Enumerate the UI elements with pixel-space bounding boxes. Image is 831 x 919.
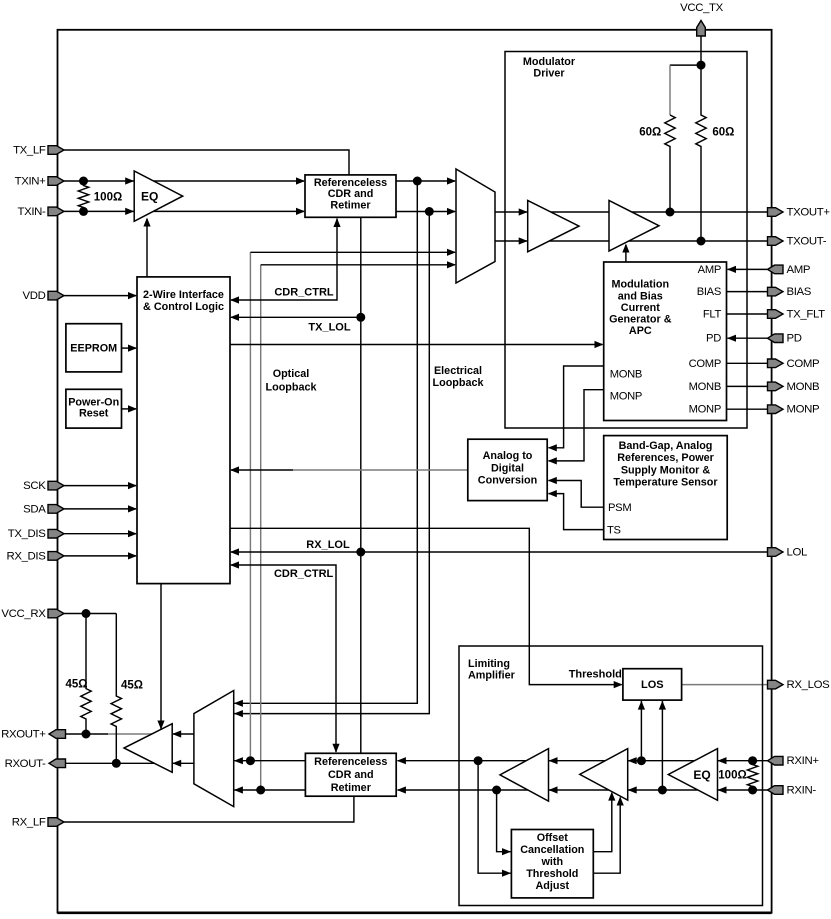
wire RX CDR output lower to RX mux — [235, 789, 306, 791]
svg-text:TX_DIS: TX_DIS — [8, 528, 47, 540]
arrowhead TXIN+ into TX CDR — [296, 177, 305, 184]
svg-text:COMP: COMP — [787, 358, 820, 370]
node RXIN+ termination — [748, 756, 757, 765]
arrowhead LOS tap lower — [659, 701, 666, 710]
svg-text:Loopback: Loopback — [433, 377, 485, 389]
op-amp RX output buffer — [124, 724, 172, 773]
wire RX upper signal from RXIN+ through limiting amp to RX CDR — [398, 760, 768, 762]
arrowhead offset output into amp right — [617, 797, 624, 806]
wire optical loopback upper into TX mux — [250, 251, 455, 253]
node optical loopback tap lower — [256, 786, 265, 795]
wire ADC result gray part — [293, 469, 468, 471]
svg-text:45Ω: 45Ω — [65, 678, 87, 690]
arrowhead TXIN+ into EQ — [125, 177, 134, 184]
arrowhead POR into 2-wire box — [128, 405, 137, 412]
wire AMP pin into modulation block — [728, 268, 768, 270]
block power-on reset — [66, 389, 122, 428]
pin TX_DIS — [48, 529, 64, 538]
arrowhead elec loopback lower into RX mux — [234, 710, 243, 717]
wire TX mux output lower to TXOUT- pin — [495, 240, 768, 242]
svg-text:PSM: PSM — [608, 502, 631, 514]
wire RX_LF from pin to RX CDR bottom — [64, 796, 354, 822]
wire optical loopback upper vertical — [249, 252, 251, 760]
pin VCC_TX — [697, 21, 706, 37]
arrowhead RX_DIS into 2-wire box — [128, 552, 137, 559]
svg-text:RXOUT-: RXOUT- — [5, 758, 46, 770]
wire optical loopback lower vertical — [260, 265, 262, 790]
RX loopback mux — [194, 691, 234, 807]
svg-text:BIAS: BIAS — [787, 286, 812, 298]
arrowhead lower into RX CDR — [397, 786, 406, 793]
arrowhead lower into limiting stage1 — [549, 786, 558, 793]
arrowhead offset input upper — [502, 870, 511, 877]
node offset tap upper — [474, 756, 483, 765]
wire offset cancellation lower output to amp — [593, 798, 620, 874]
svg-text:VCC_RX: VCC_RX — [1, 608, 46, 620]
svg-text:TS: TS — [607, 525, 621, 537]
wire PD pin into modulation block — [728, 337, 768, 339]
svg-text:60Ω: 60Ω — [639, 127, 661, 139]
arrowhead upper into limiting stage1 — [549, 757, 558, 764]
wire EEPROM to 2-wire box — [122, 347, 137, 349]
node RXOUT- 45ohm junction — [112, 759, 121, 768]
pin TX_FLT — [768, 310, 784, 319]
arrowhead MONB into ADC — [548, 444, 557, 451]
arrowhead PSM into ADC — [548, 477, 557, 484]
svg-text:EEPROM: EEPROM — [70, 342, 117, 354]
block band-gap analog references — [604, 436, 728, 540]
node elec loopback tap upper — [413, 177, 422, 186]
svg-text:RX_LOS: RX_LOS — [787, 679, 831, 691]
op-amp RX EQ — [668, 749, 717, 801]
wire SCK to 2-wire box — [64, 485, 136, 487]
wire MONP output to pin — [727, 408, 768, 410]
svg-text:LOS: LOS — [641, 679, 664, 691]
wire VDD to 2-wire box — [64, 295, 136, 297]
pin VDD — [48, 291, 64, 300]
wire TXIN+ input to EQ and CDR — [64, 180, 304, 182]
arrowhead RX CDR lower out into RX mux — [234, 786, 243, 793]
pin PD — [768, 334, 784, 343]
svg-text:Threshold: Threshold — [569, 668, 622, 680]
arrowhead CDR out lower into mux — [447, 208, 456, 215]
node optical loopback tap upper — [246, 756, 255, 765]
pin TXOUT+ — [768, 208, 784, 217]
arrowhead 2-wire to RX buffer — [157, 721, 164, 730]
op-amp TX pre-driver buffer — [528, 201, 579, 252]
arrowhead upper into limiting stage2 — [628, 757, 637, 764]
svg-text:RXIN+: RXIN+ — [787, 755, 820, 767]
node LOL junction — [356, 548, 365, 557]
svg-text:BIAS: BIAS — [697, 286, 721, 298]
svg-text:AMP: AMP — [787, 264, 811, 276]
wire LOS tap from lower RX line — [661, 701, 663, 790]
svg-text:Amplifier: Amplifier — [468, 670, 516, 682]
wire SDA to 2-wire box — [64, 508, 136, 510]
svg-text:MONB: MONB — [689, 381, 721, 393]
arrowhead EQ control — [143, 218, 150, 227]
wire electrical loopback lower tap down to RX mux — [235, 212, 430, 714]
node RXIN- termination — [748, 786, 757, 795]
svg-text:PD: PD — [787, 333, 802, 345]
svg-text:TXIN-: TXIN- — [18, 206, 47, 218]
arrowhead SCK into 2-wire box — [128, 482, 137, 489]
svg-text:100Ω: 100Ω — [94, 191, 122, 203]
resistor 60 ohm left pull-up — [665, 115, 675, 212]
pin RX_DIS — [48, 552, 64, 561]
wire CDR_CTRL from 2-wire box down to RX CDR — [231, 565, 336, 752]
node LOS tap upper — [637, 756, 646, 765]
wire RXOUT+ gray segment — [108, 733, 158, 735]
svg-text:MONB: MONB — [787, 381, 820, 393]
svg-text:Referenceless: Referenceless — [314, 177, 387, 189]
svg-text:CDR_CTRL: CDR_CTRL — [274, 287, 334, 299]
limiting amplifier container box — [459, 646, 763, 906]
wire optical loopback lower into TX mux — [261, 264, 455, 266]
svg-text:CDR and: CDR and — [328, 188, 374, 200]
wire MONB monitor to ADC — [549, 366, 604, 448]
arrowhead mux lower out into RX buffer — [172, 760, 181, 767]
wire offset cancellation input from upper line — [478, 761, 510, 874]
arrowhead MONP into ADC — [548, 457, 557, 464]
arrowhead offset output into amp left — [608, 792, 615, 801]
arrowhead optical loopback lower into mux — [447, 261, 456, 268]
wire BIAS output to pin — [727, 291, 768, 293]
pin SCK — [48, 481, 64, 490]
arrowhead RX_LOL into 2-wire box — [230, 548, 239, 555]
pin TXOUT- — [768, 237, 784, 246]
svg-text:MONP: MONP — [689, 404, 721, 416]
arrowhead TX_DIS into 2-wire box — [128, 530, 137, 537]
svg-text:Electrical: Electrical — [434, 365, 482, 377]
svg-text:Band-Gap, Analog: Band-Gap, Analog — [619, 440, 713, 452]
pin TX_LF — [48, 146, 64, 155]
node TXOUT+ 60ohm junction — [666, 208, 675, 217]
wire TX_LF from pin to top of TX CDR box — [64, 150, 349, 175]
arrowhead threshold into LOS — [614, 681, 623, 688]
wire LOS output to RX_LOS pin — [682, 684, 768, 686]
wire FLT output to TX_FLT pin — [727, 313, 768, 315]
svg-text:PD: PD — [706, 333, 721, 345]
wire TX_DIS to 2-wire box — [64, 533, 136, 535]
pin RX_LOS — [768, 680, 784, 689]
wire APC control from 2-wire box to modulation block — [230, 344, 603, 346]
svg-text:Supply Monitor &: Supply Monitor & — [621, 464, 711, 476]
pin RXOUT+ — [49, 730, 66, 739]
svg-text:TX_FLT: TX_FLT — [787, 309, 826, 321]
svg-text:EQ: EQ — [693, 768, 710, 782]
svg-text:Retimer: Retimer — [330, 199, 371, 211]
pin TXIN- — [48, 207, 64, 216]
wire electrical loopback upper tap down to RX mux — [235, 181, 418, 703]
wire RX CDR output upper to RX mux — [235, 760, 306, 762]
resistor 100 ohm RXIN termination — [747, 761, 757, 790]
pin RX_LF — [48, 818, 64, 827]
node TXOUT- 60ohm junction — [697, 237, 706, 246]
svg-text:TXOUT+: TXOUT+ — [787, 207, 831, 219]
svg-text:Conversion: Conversion — [478, 475, 537, 487]
arrowhead CDR_CTRL2 into 2-wire box — [230, 561, 239, 568]
wire VCC_TX supply down to 60ohm junction — [700, 36, 702, 65]
wire from 2-wire box bottom to RX output buffer — [160, 584, 162, 730]
arrowhead PD into modulation block — [727, 335, 736, 342]
wire TX CDR output upper to mux — [396, 180, 455, 182]
wire RX_DIS to 2-wire box — [64, 555, 136, 557]
svg-text:VDD: VDD — [23, 290, 46, 302]
arrowhead APC drive into output driver — [622, 244, 629, 253]
arrowhead mux out lower into driver — [519, 237, 528, 244]
arrowhead CDR_CTRL into TX CDR — [333, 218, 340, 227]
pin COMP — [768, 359, 784, 368]
svg-text:Optical: Optical — [273, 368, 310, 380]
node RXOUT+ 45ohm junction — [82, 730, 91, 739]
svg-text:Current: Current — [621, 302, 660, 314]
wire TX mux output upper to TXOUT+ pin — [495, 211, 768, 213]
pin VCC_RX — [48, 609, 64, 618]
svg-text:Referenceless: Referenceless — [314, 756, 387, 768]
arrowhead TX_LOL into 2-wire box — [230, 314, 239, 321]
wire gray stub to left 60 ohm — [669, 65, 671, 115]
wire RX_LOL / LOL output line — [231, 551, 768, 553]
svg-text:Temperature Sensor: Temperature Sensor — [613, 477, 718, 489]
node VCC_RX branch — [82, 609, 91, 618]
arrowhead elec loopback upper into RX mux — [234, 700, 243, 707]
block analog to digital conversion — [468, 439, 547, 500]
svg-text:SCK: SCK — [23, 480, 46, 492]
svg-text:EQ: EQ — [141, 190, 158, 204]
svg-text:Generator &: Generator & — [609, 314, 672, 326]
block RX referenceless CDR and retimer — [305, 753, 396, 796]
arrowhead CDR out upper into mux — [447, 177, 456, 184]
arrowhead RXIN+ into RX EQ — [718, 757, 727, 764]
svg-text:LOL: LOL — [787, 547, 807, 559]
arrowhead RXIN- into RX EQ — [718, 786, 727, 793]
node elec loopback tap lower — [425, 207, 434, 216]
wire LOS tap from upper RX line — [640, 701, 642, 761]
svg-text:& Control Logic: & Control Logic — [143, 301, 224, 313]
svg-text:MONP: MONP — [787, 404, 820, 416]
op-amp TX EQ — [134, 171, 183, 221]
wire MONB output to pin — [727, 385, 768, 387]
node VCC_TX 60ohm junction — [697, 61, 706, 70]
pin MONB — [768, 382, 784, 391]
svg-text:Cancellation: Cancellation — [520, 844, 584, 856]
arrowhead TXIN- into TX CDR — [296, 208, 305, 215]
block LOS detector — [623, 669, 682, 700]
svg-text:References, Power: References, Power — [617, 452, 714, 464]
arrowhead TXIN- into EQ — [125, 208, 134, 215]
pin LOL — [768, 548, 784, 557]
wire RX mux lower output to buffer — [173, 762, 194, 764]
svg-text:TX_LF: TX_LF — [13, 145, 46, 157]
resistor 45 ohm right RXOUT- pull-up — [111, 614, 121, 764]
svg-text:45Ω: 45Ω — [121, 680, 143, 692]
svg-text:2-Wire Interface: 2-Wire Interface — [143, 289, 224, 301]
block EEPROM — [66, 324, 122, 372]
arrowhead APC control into modulation block — [595, 341, 604, 348]
arrowhead VDD into 2-wire box — [128, 292, 137, 299]
resistor 45 ohm left RXOUT+ pull-up — [81, 614, 91, 735]
wire TX_LOL to 2-wire box — [231, 316, 361, 318]
wire offset cancellation input from lower line — [497, 790, 511, 852]
svg-text:with: with — [541, 856, 564, 868]
svg-text:MONB: MONB — [610, 369, 642, 381]
arrowhead mux upper out into RX buffer — [172, 730, 181, 737]
wire APC drive up into output driver — [625, 245, 627, 262]
wire RX mux upper output to buffer — [173, 733, 194, 735]
arrowhead optical loopback upper into mux — [447, 249, 456, 256]
node offset tap lower — [492, 786, 501, 795]
svg-text:FLT: FLT — [703, 309, 722, 321]
svg-text:Adjust: Adjust — [536, 880, 570, 892]
wire ADC result to 2-wire box black part — [231, 469, 293, 471]
svg-text:RX_DIS: RX_DIS — [6, 550, 46, 562]
wire TS monitor to ADC — [549, 494, 604, 530]
node LOS tap lower — [658, 786, 667, 795]
block TX referenceless CDR and retimer — [305, 175, 396, 217]
svg-text:Retimer: Retimer — [331, 782, 372, 794]
wire from VCC_TX junction to left 60ohm resistor — [670, 64, 701, 66]
arrowhead lower into limiting stage2 — [628, 786, 637, 793]
svg-text:Driver: Driver — [533, 67, 565, 79]
op-amp limiting amp stage 1 — [500, 749, 549, 802]
wire CDR_CTRL between 2-wire box and TX CDR — [231, 219, 337, 301]
wire RXOUT+ from buffer to pin — [55, 733, 108, 735]
block offset cancellation with threshold adjust — [511, 830, 593, 898]
wire MONP monitor to ADC — [549, 390, 604, 461]
svg-text:Limiting: Limiting — [468, 658, 510, 670]
arrowhead CDR_CTRL into 2-wire box — [230, 296, 239, 303]
modulator driver container box — [505, 52, 747, 429]
arrowhead ADC result into 2-wire box — [230, 466, 239, 473]
svg-text:RXOUT+: RXOUT+ — [1, 729, 46, 741]
svg-text:100Ω: 100Ω — [718, 769, 746, 781]
pin MONP — [768, 405, 784, 414]
svg-text:and Bias: and Bias — [618, 290, 663, 302]
wire VCC_RX to termination resistors — [64, 613, 116, 615]
svg-text:AMP: AMP — [698, 264, 721, 276]
arrowhead upper into RX CDR — [397, 757, 406, 764]
arrowhead LOS tap upper — [638, 701, 645, 710]
wire offset cancellation upper output to amp — [593, 793, 612, 852]
node TXIN- termination — [79, 207, 88, 216]
svg-text:Modulator: Modulator — [523, 56, 576, 68]
resistor 100 ohm TXIN termination — [78, 181, 88, 211]
svg-text:CDR_CTRL: CDR_CTRL — [274, 568, 334, 580]
arrowhead TS into ADC — [548, 490, 557, 497]
svg-text:RX_LOL: RX_LOL — [306, 539, 350, 551]
arrowhead SDA into 2-wire box — [128, 505, 137, 512]
node TX_LOL junction — [356, 313, 365, 322]
wire EQ control from 2-wire box top — [146, 219, 148, 277]
svg-text:MONP: MONP — [610, 391, 642, 403]
arrowhead EEPROM into 2-wire box — [128, 345, 137, 352]
svg-text:Reset: Reset — [79, 408, 109, 420]
wire TX CDR output lower to mux — [396, 211, 455, 213]
svg-text:APC: APC — [629, 325, 652, 337]
block 2-wire interface and control logic — [137, 277, 230, 584]
node TXIN+ termination — [79, 177, 88, 186]
pin BIAS — [768, 287, 784, 296]
wire RXOUT- from buffer to pin — [55, 762, 158, 764]
arrowhead mux out upper into driver — [519, 208, 528, 215]
wire PSM monitor to ADC — [549, 481, 604, 508]
svg-text:SDA: SDA — [23, 503, 46, 515]
pin TXIN+ — [48, 177, 64, 186]
block modulation and bias current generator APC — [604, 262, 727, 421]
wire TXIN- input to EQ and CDR — [64, 210, 304, 212]
resistor 60 ohm right pull-up — [696, 65, 706, 241]
svg-text:COMP: COMP — [689, 358, 721, 370]
arrowhead offset input lower — [502, 848, 511, 855]
wire RX lower signal from RXIN- through limiting amp to RX CDR — [398, 789, 768, 791]
svg-text:Offset: Offset — [537, 832, 569, 844]
svg-text:RX_LF: RX_LF — [12, 817, 46, 829]
svg-text:60Ω: 60Ω — [712, 127, 734, 139]
svg-text:TX_LOL: TX_LOL — [308, 321, 350, 333]
TX loopback mux — [456, 169, 495, 283]
pin RXIN+ — [768, 756, 784, 765]
svg-text:Loopback: Loopback — [266, 382, 318, 394]
wire threshold control from 2-wire box to LOS — [230, 528, 622, 684]
wire Power-On Reset to 2-wire box — [122, 408, 137, 410]
svg-text:Threshold: Threshold — [526, 868, 578, 880]
svg-text:RXIN-: RXIN- — [787, 785, 817, 797]
svg-text:TXIN+: TXIN+ — [15, 176, 47, 188]
svg-text:Digital: Digital — [491, 462, 524, 474]
wire LOL vertical joining both CDRs — [360, 217, 362, 753]
svg-text:Modulation: Modulation — [612, 279, 670, 291]
svg-text:VCC_TX: VCC_TX — [680, 2, 724, 14]
svg-text:TXOUT-: TXOUT- — [787, 236, 827, 248]
arrowhead RX CDR upper out into RX mux — [234, 757, 243, 764]
pin RXIN- — [768, 786, 784, 795]
arrowhead AMP into modulation block — [727, 266, 736, 273]
svg-text:CDR and: CDR and — [328, 769, 374, 781]
op-amp limiting amp stage 2 — [580, 749, 628, 801]
op-amp TX output driver — [609, 201, 659, 252]
svg-text:Analog to: Analog to — [483, 450, 533, 462]
pin RXOUT- — [49, 759, 66, 768]
pin SDA — [48, 505, 64, 514]
arrowhead CDR_CTRL2 into RX CDR — [332, 744, 339, 753]
pin AMP — [768, 265, 784, 274]
wire COMP output to pin — [727, 362, 768, 364]
